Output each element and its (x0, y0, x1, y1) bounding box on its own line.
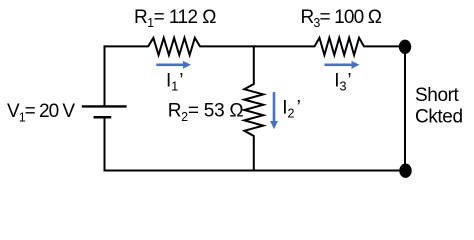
svg-text:V1= 20 V: V1= 20 V (7, 101, 75, 124)
svg-text:Short: Short (415, 85, 460, 106)
svg-text:R3= 100 Ω: R3= 100 Ω (301, 7, 382, 30)
svg-text:R1= 112 Ω: R1= 112 Ω (134, 7, 216, 30)
svg-text:R2= 53 Ω: R2= 53 Ω (168, 101, 244, 124)
svg-text:Ckted: Ckted (415, 107, 463, 128)
